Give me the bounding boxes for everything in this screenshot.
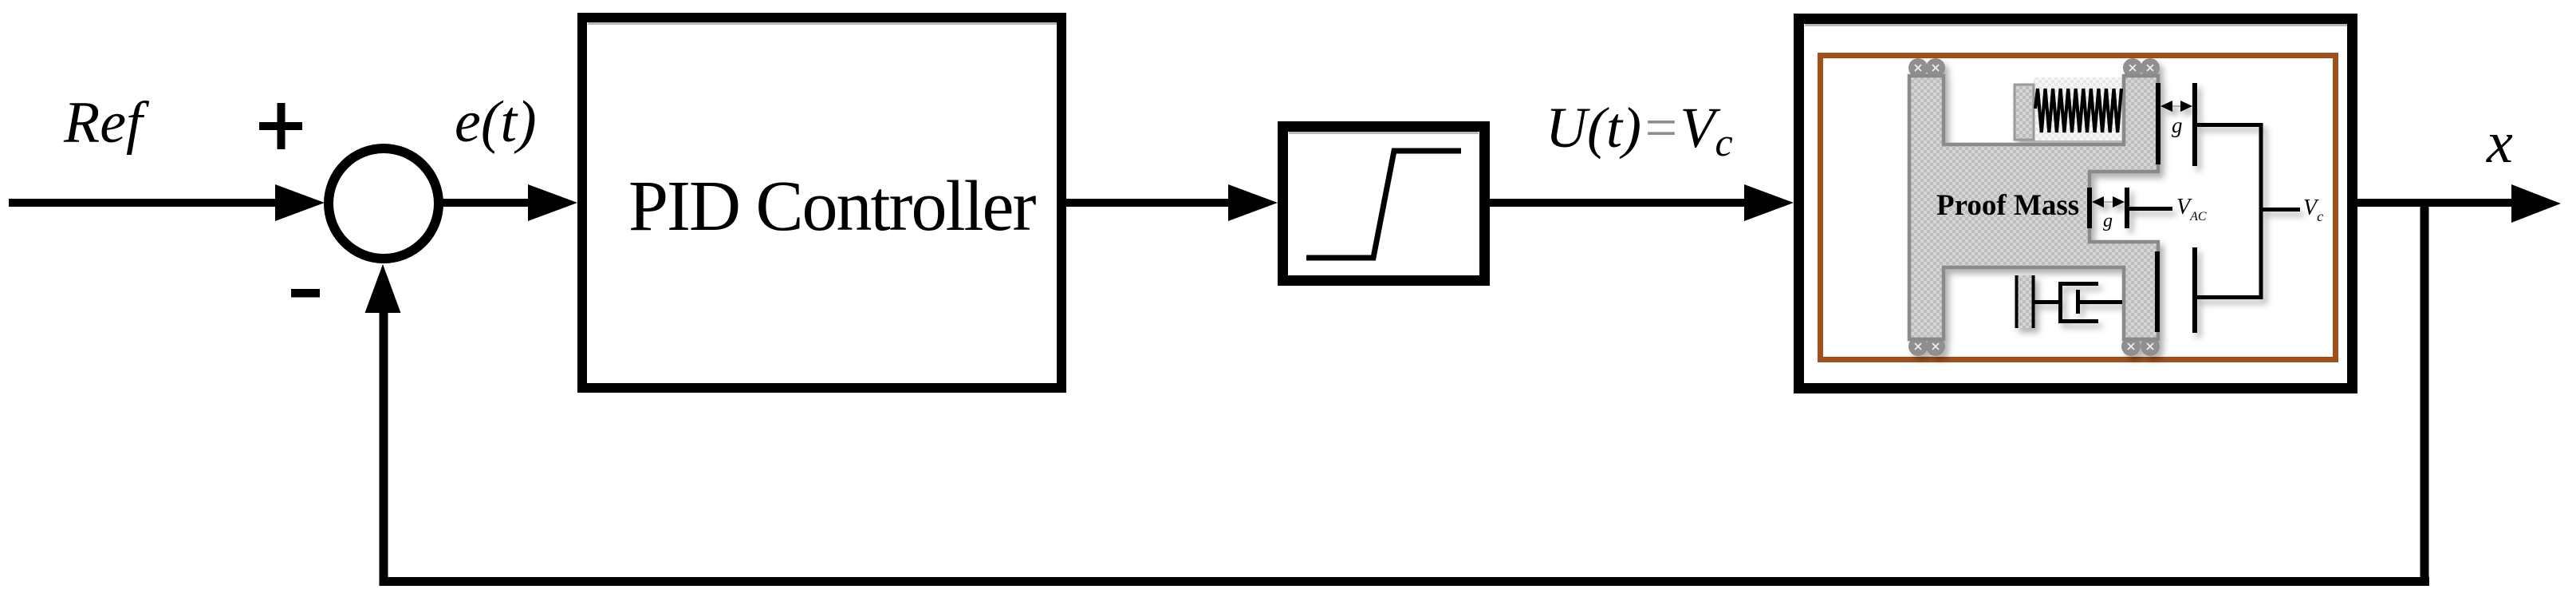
svg-text:g: g (2172, 113, 2183, 137)
svg-text:x: x (2486, 110, 2513, 176)
svg-text:g: g (2103, 211, 2113, 231)
svg-text:PID Controller: PID Controller (628, 167, 1036, 246)
svg-text:e(t): e(t) (455, 89, 537, 155)
svg-text:U(t)=Vc: U(t)=Vc (1546, 96, 1733, 164)
svg-text:Ref: Ref (63, 90, 150, 156)
svg-text:Proof Mass: Proof Mass (1936, 189, 2079, 222)
